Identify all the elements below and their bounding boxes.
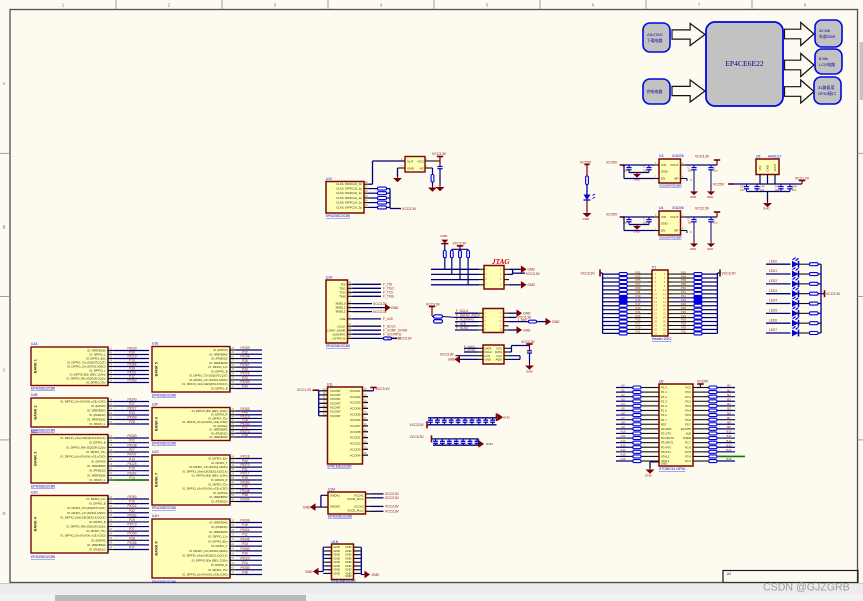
svg-text:IO, VREFB1N0: IO, VREFB1N0	[209, 361, 228, 365]
svg-text:LED2: LED2	[769, 279, 777, 283]
svg-text:P39: P39	[242, 552, 248, 556]
pll left pins	[323, 494, 329, 496]
svg-text:PIO82: PIO82	[127, 513, 136, 517]
ground under mcu	[649, 468, 651, 470]
wire nCE	[353, 318, 382, 320]
svg-text:GND: GND	[448, 358, 456, 362]
svg-text:IO, DIFFIO_L3n (DATA1,ASDO): IO, DIFFIO_L3n (DATA1,ASDO)	[189, 465, 227, 469]
svg-text:EP4CE6E22C8N: EP4CE6E22C8N	[328, 465, 353, 469]
svg-text:A16: A16	[621, 457, 626, 461]
capacitor C30 at oscillator vcc	[437, 166, 442, 168]
svg-text:PIO46: PIO46	[240, 537, 249, 541]
wire beads to AS wires	[432, 316, 434, 318]
svg-text:BANK 6: BANK 6	[155, 417, 159, 431]
ground at oscillator	[397, 177, 399, 179]
svg-text:nCE: nCE	[340, 317, 346, 321]
svg-text:GND: GND	[440, 234, 448, 238]
svg-text:IO, DIFFIO_B3n (DEV_CLRn): IO, DIFFIO_B3n (DEV_CLRn)	[192, 558, 228, 562]
svg-text:GND: GND	[303, 505, 311, 509]
svg-text:IO, DIFFIO_T5n: IO, DIFFIO_T5n	[208, 482, 228, 486]
jumper bead upper	[434, 315, 443, 318]
svg-text:XC6206P332MR: XC6206P332MR	[659, 236, 682, 240]
svg-text:EP4CE6E22C8N: EP4CE6E22C8N	[326, 214, 351, 218]
svg-text:IO, DIFFIO_L9n(nCEO)(DCLK,DCLK: IO, DIFFIO_L9n(nCEO)(DCLK,DCLK)	[182, 382, 227, 386]
svg-text:LED6: LED6	[769, 318, 777, 322]
wire MSEL2 to vcc	[353, 311, 373, 313]
left zone tick 2	[0, 296, 10, 298]
svg-text:B7: B7	[727, 416, 731, 420]
wire gnd to EPCS GND	[460, 358, 478, 360]
svg-text:C: C	[2, 368, 5, 373]
svg-text:EP4CE6E22C8N: EP4CE6E22C8N	[326, 344, 351, 348]
EPCS right vertical wire	[509, 347, 512, 349]
capacitor U5 out a	[780, 184, 782, 186]
svg-text:P24: P24	[242, 561, 248, 565]
svg-text:GND: GND	[391, 306, 399, 310]
capacitor at U3 input b	[648, 165, 650, 167]
svg-text:GPIO接口: GPIO接口	[818, 90, 836, 96]
svg-text:IO, VREFB1N0: IO, VREFB1N0	[87, 473, 106, 477]
gnd rail under U3 input caps	[629, 172, 649, 174]
fpga bank block U1B (BANK 2)	[31, 398, 108, 427]
svg-text:BP: BP	[674, 229, 678, 233]
gnd rail U5	[747, 191, 791, 193]
decoupling capacitor row C11-C17	[435, 439, 437, 441]
fpga bank block U1E (BANK 5)	[152, 347, 230, 393]
svg-text:CLK3, DIFFCLK_1n: CLK3, DIFFCLK_1n	[336, 191, 362, 195]
svg-text:PIO69: PIO69	[240, 519, 249, 523]
gpio left resistor array	[648, 273, 652, 275]
capacitor at U4 input b	[648, 217, 650, 219]
ground arrow AS pin2	[517, 309, 523, 317]
svg-text:IO, DIFFIO_T5n: IO, DIFFIO_T5n	[86, 450, 106, 454]
svg-text:nSTATUS: nSTATUS	[332, 337, 345, 341]
svg-text:IO, DIFFIO_R: IO, DIFFIO_R	[211, 478, 228, 482]
svg-text:VCC: VCC	[417, 159, 424, 163]
block power supply circuit	[643, 79, 670, 104]
status bar strip	[0, 584, 863, 601]
svg-text:VCCD_PLL1: VCCD_PLL1	[347, 497, 364, 501]
svg-text:GND: GND	[690, 195, 696, 199]
svg-text:10u: 10u	[643, 220, 648, 224]
svg-text:IO, DIFFIO_L1n: IO, DIFFIO_L1n	[86, 497, 106, 501]
svg-text:U1A: U1A	[31, 342, 38, 346]
svg-text:LED4: LED4	[769, 299, 777, 303]
svg-text:B14: B14	[727, 448, 732, 452]
gnd bar cap row1	[496, 413, 498, 421]
svg-text:BANK 2: BANK 2	[34, 405, 38, 419]
svg-text:EP4CE6E22C8N: EP4CE6E22C8N	[328, 515, 353, 519]
svg-text:F_nCE: F_nCE	[383, 317, 394, 321]
svg-text:ALE: ALE	[686, 432, 691, 436]
svg-text:EP4CE6E22C8N: EP4CE6E22C8N	[152, 442, 177, 446]
svg-text:P1.2: P1.2	[661, 395, 667, 399]
clock bank block U10	[326, 182, 364, 214]
arrow FPGA to SDRAM	[785, 23, 815, 46]
ground arrow left of U1N	[313, 568, 319, 576]
svg-text:GND: GND	[645, 474, 653, 478]
svg-text:IO, DIFFIO_L3n (DATA1,ASDO): IO, DIFFIO_L3n (DATA1,ASDO)	[67, 511, 105, 515]
svg-text:GND: GND	[707, 195, 713, 199]
ldo U4 body	[659, 211, 681, 235]
svg-text:IO, VREFB3N0: IO, VREFB3N0	[87, 543, 106, 547]
svg-text:AS/JTAG: AS/JTAG	[647, 32, 663, 37]
resistor R26 nSTATUS pullup	[384, 337, 392, 340]
power bar U5 out	[799, 180, 805, 182]
capacitor U3 bypass	[686, 178, 688, 180]
top zone tick 2	[221, 0, 223, 10]
svg-text:B4: B4	[727, 402, 731, 406]
svg-text:TMS: TMS	[339, 294, 345, 298]
svg-text:LED7: LED7	[769, 328, 777, 332]
svg-text:VCCIO4: VCCIO4	[350, 406, 361, 410]
svg-text:IO, DIFFIO_R: IO, DIFFIO_R	[211, 563, 228, 567]
power bar VCC3.3V oscillator	[437, 156, 443, 158]
svg-text:PIO54: PIO54	[240, 498, 249, 502]
svg-text:PIO60: PIO60	[240, 547, 249, 551]
svg-text:A2: A2	[621, 393, 625, 397]
svg-text:VCC3.3V: VCC3.3V	[410, 435, 425, 439]
wire LED0 to gnd	[586, 200, 588, 212]
svg-text:A6: A6	[621, 411, 625, 415]
svg-text:CSDN @GJZGRB: CSDN @GJZGRB	[763, 582, 850, 594]
power bar VCC1.2V at U1L	[313, 389, 319, 391]
svg-text:U3: U3	[659, 154, 663, 158]
config block U1K body and pins	[326, 280, 348, 343]
svg-text:GND: GND	[528, 283, 536, 287]
svg-text:IO, (PADD12): IO, (PADD12)	[211, 431, 227, 435]
block GPIO port	[814, 77, 841, 104]
ground arrow JTAG pin10	[521, 281, 527, 289]
svg-text:P0.0: P0.0	[685, 390, 691, 394]
svg-text:IO, (PADD12): IO, (PADD12)	[89, 548, 105, 552]
svg-text:B9: B9	[727, 425, 731, 429]
top zone tick 4	[433, 0, 435, 10]
ground arrow left of EPCS	[454, 356, 460, 364]
svg-text:XC6206P332MR: XC6206P332MR	[659, 184, 682, 188]
svg-text:BANK 7: BANK 7	[155, 473, 159, 487]
wire gnd to U1M	[316, 506, 321, 508]
svg-text:OUT: OUT	[407, 159, 414, 163]
svg-text:IO, (PADD12): IO, (PADD12)	[89, 413, 105, 417]
left zone tick 1	[0, 152, 10, 154]
arrow from AS/JTAG to FPGA	[672, 24, 705, 46]
wire JTAG pin2 gnd	[509, 268, 521, 270]
svg-text:IO, VREFB1N0: IO, VREFB1N0	[87, 349, 106, 353]
svg-text:B13: B13	[727, 443, 732, 447]
svg-text:GND: GND	[523, 328, 531, 332]
svg-text:P3.5/T1: P3.5/T1	[661, 450, 671, 454]
svg-text:U1E: U1E	[152, 342, 159, 346]
svg-text:B16: B16	[727, 457, 732, 461]
svg-text:IO, (PADD12): IO, (PADD12)	[211, 357, 227, 361]
svg-text:PIO83: PIO83	[127, 434, 136, 438]
svg-text:IO, DIFFIO_B: IO, DIFFIO_B	[211, 369, 228, 373]
svg-text:IO, DIFFIO_R: IO, DIFFIO_R	[211, 413, 228, 417]
svg-text:A8: A8	[621, 420, 625, 424]
green wire at mcu	[717, 455, 745, 457]
svg-text:IO, VREFB1N0: IO, VREFB1N0	[209, 435, 228, 439]
svg-text:P1.5: P1.5	[661, 409, 667, 413]
ground under U4 out a	[693, 242, 695, 243]
cap row1 bottom rail	[427, 424, 497, 426]
svg-text:A4: A4	[621, 402, 625, 406]
svg-text:VCCIO4: VCCIO4	[350, 453, 361, 457]
svg-text:MSEL2: MSEL2	[336, 310, 346, 314]
svg-text:A5: A5	[621, 407, 625, 411]
jumper bead lower	[434, 320, 443, 323]
svg-text:IO, DIFFIO_L3n (DATA1,ASDO): IO, DIFFIO_L3n (DATA1,ASDO)	[189, 549, 227, 553]
svg-text:XC6206: XC6206	[672, 154, 684, 158]
EPCS left wires	[464, 347, 478, 349]
ldo U3 pins	[654, 164, 659, 166]
block EP4CE6E22 FPGA	[706, 22, 783, 106]
top zone tick 1	[115, 0, 117, 10]
svg-text:STC89C51 DIP40: STC89C51 DIP40	[659, 467, 686, 471]
svg-text:PIO50: PIO50	[127, 532, 136, 536]
svg-text:B8: B8	[727, 420, 731, 424]
wires config DCLK group	[353, 325, 382, 327]
svg-text:VCCIO2: VCCIO2	[350, 395, 361, 399]
svg-text:A7: A7	[621, 416, 625, 420]
svg-text:IO, VREFB3N0: IO, VREFB3N0	[209, 521, 228, 525]
svg-text:A13: A13	[621, 443, 626, 447]
top zone tick 3	[327, 0, 329, 10]
regulator U5 body	[756, 159, 779, 175]
svg-text:A14: A14	[621, 448, 626, 452]
svg-text:VOUT: VOUT	[773, 163, 777, 171]
svg-text:GND: GND	[661, 170, 669, 174]
svg-text:P2.3: P2.3	[685, 459, 691, 463]
pll right wires	[366, 493, 372, 495]
gpio right resistor array	[668, 273, 672, 275]
svg-text:IO, (DATA0): IO, (DATA0)	[91, 404, 105, 408]
power bar at JTAG resistors	[457, 245, 463, 247]
svg-text:GND: GND	[552, 320, 560, 324]
svg-text:IO, DIFFIO_L3n (DATA1,ASDO): IO, DIFFIO_L3n (DATA1,ASDO)	[189, 378, 227, 382]
svg-text:IO, DIFFIO_T5n: IO, DIFFIO_T5n	[208, 416, 228, 420]
cap row2 top rail	[433, 438, 479, 440]
capacitor U5 out b	[789, 184, 791, 186]
svg-text:VCCIO1: VCCIO1	[350, 389, 361, 393]
svg-text:IO, DIFFIO_T2n (DQS0T,CQ1T): IO, DIFFIO_T2n (DQS0T,CQ1T)	[67, 506, 105, 510]
svg-text:IO, (DATA0): IO, (DATA0)	[213, 424, 227, 428]
gpio header P1 body	[652, 270, 668, 336]
svg-text:U5: U5	[756, 155, 760, 159]
svg-text:IO, DIFFIO_L6n (FLASH_nCE,nCSO: IO, DIFFIO_L6n (FLASH_nCE,nCSO)	[182, 573, 227, 577]
svg-text:10u: 10u	[713, 169, 718, 173]
right scrollbar thumb	[860, 42, 863, 100]
svg-text:P0.1: P0.1	[685, 395, 691, 399]
svg-text:VCC3.3V: VCC3.3V	[722, 272, 737, 276]
svg-text:IO, DIFFIO_T2n (DQS0T,CQ1T): IO, DIFFIO_T2n (DQS0T,CQ1T)	[67, 361, 105, 365]
svg-text:BANK 5: BANK 5	[155, 362, 159, 376]
power bar cap row1	[426, 421, 428, 428]
svg-text:C: C	[643, 216, 645, 220]
svg-text:IO, DIFFIO_B1n: IO, DIFFIO_B1n	[208, 457, 228, 461]
svg-text:IO, VREFB1N0: IO, VREFB1N0	[209, 530, 228, 534]
svg-text:GND: GND	[766, 165, 770, 171]
svg-text:VCC3.3V: VCC3.3V	[402, 207, 417, 211]
wire VCC5V to U4	[622, 216, 654, 218]
cap row1 top rail	[428, 417, 497, 419]
wire VOUT U4	[686, 216, 718, 218]
svg-text:P29: P29	[129, 518, 135, 522]
svg-text:VCC3.3V: VCC3.3V	[695, 155, 710, 159]
svg-text:P32: P32	[681, 330, 686, 334]
capacitor U5 in b	[756, 184, 758, 186]
svg-text:XTAL2: XTAL2	[661, 455, 670, 459]
svg-text:PIO83: PIO83	[127, 495, 136, 499]
svg-text:PIO17: PIO17	[127, 407, 136, 411]
svg-text:IO, VREFB1N0: IO, VREFB1N0	[87, 418, 106, 422]
svg-text:EP4CE6E22C8N: EP4CE6E22C8N	[31, 387, 56, 391]
wire U1L right pin1 to vcc	[368, 390, 374, 392]
svg-text:IO, DIFFIO_L6n (FLASH_nCE,nCSO: IO, DIFFIO_L6n (FLASH_nCE,nCSO)	[182, 487, 227, 491]
EPCS flash U2 body	[483, 345, 504, 364]
svg-text:EN: EN	[661, 229, 665, 233]
gpio left vcc bus	[602, 273, 604, 333]
left zone tick 3	[0, 439, 10, 441]
svg-text:B0: B0	[727, 384, 731, 388]
svg-text:P3.2/INT0: P3.2/INT0	[661, 436, 674, 440]
mcu gnd pin wire	[655, 461, 659, 463]
svg-text:LED1: LED1	[769, 269, 777, 273]
svg-text:IO, DIFFIO_B3n (DEV_CLRn): IO, DIFFIO_B3n (DEV_CLRn)	[192, 409, 228, 413]
cap row2 bottom rail	[433, 444, 479, 446]
svg-text:LED5: LED5	[769, 309, 777, 313]
AS header left wires	[455, 312, 478, 314]
svg-text:GND: GND	[583, 217, 591, 221]
svg-text:IO, DIFFIO_B1n: IO, DIFFIO_B1n	[208, 539, 228, 543]
wire AS pin2 gnd	[509, 312, 517, 314]
ground arrow after R34	[546, 318, 552, 326]
svg-text:P13: P13	[129, 411, 135, 415]
svg-text:VCCIO6: VCCIO6	[350, 418, 361, 422]
svg-text:IO, VREFB3N0: IO, VREFB3N0	[209, 495, 228, 499]
bottom scrollbar track	[0, 595, 863, 601]
svg-text:VCC3.3V: VCC3.3V	[385, 505, 400, 509]
ldo U4 pins	[654, 216, 659, 218]
svg-text:A4: A4	[727, 572, 731, 576]
svg-text:PIO97: PIO97	[127, 471, 136, 475]
ground under power LED	[586, 212, 588, 214]
power bar gpio left	[599, 270, 601, 277]
wire nSTATUS pullup	[381, 337, 384, 339]
svg-text:PIO25: PIO25	[127, 462, 136, 466]
block AS/JTAG download circuit	[643, 23, 670, 52]
svg-text:PIO73: PIO73	[127, 523, 136, 527]
svg-text:B6: B6	[727, 411, 731, 415]
svg-text:U6: U6	[659, 380, 663, 384]
ground under U5	[767, 202, 769, 204]
svg-text:F_nCSO: F_nCSO	[456, 326, 469, 330]
svg-text:VCC: VCC	[685, 386, 691, 390]
svg-text:BP: BP	[674, 177, 678, 181]
svg-text:VCCIO3: VCCIO3	[350, 401, 361, 405]
power bar gpio right	[719, 270, 721, 277]
svg-text:PIO40: PIO40	[127, 398, 136, 402]
svg-text:IO, DIFFIO_L6n (FLASH_nCE,nCSO: IO, DIFFIO_L6n (FLASH_nCE,nCSO)	[60, 455, 105, 459]
wire AS pin4 vcc	[509, 316, 517, 318]
wire EN loop U4	[623, 217, 625, 231]
svg-text:P0.3: P0.3	[685, 404, 691, 408]
svg-text:ASDI: ASDI	[495, 358, 502, 362]
svg-text:VCC5V: VCC5V	[713, 182, 725, 186]
svg-text:IO, DIFFIO_L9n(nCEO)(DCLK,DCLK: IO, DIFFIO_L9n(nCEO)(DCLK,DCLK)	[182, 469, 227, 473]
ground arrow left of U1M	[310, 503, 316, 511]
svg-text:IO, (DATA0): IO, (DATA0)	[213, 348, 227, 352]
svg-text:EP4CE6E22C8N: EP4CE6E22C8N	[31, 485, 56, 489]
svg-text:EN: EN	[661, 177, 665, 181]
svg-text:PIO90: PIO90	[127, 416, 136, 420]
svg-text:P1.7: P1.7	[661, 418, 667, 422]
wire U10 CLK1 to oscillator	[369, 183, 373, 185]
svg-text:P15: P15	[242, 523, 248, 527]
svg-text:IO, DIFFIO_L1n: IO, DIFFIO_L1n	[208, 365, 228, 369]
svg-text:PIO47: PIO47	[127, 453, 136, 457]
svg-text:VCC3.3V: VCC3.3V	[526, 272, 541, 276]
gnd block left bus	[322, 547, 324, 571]
svg-text:IO, DIFFIO_R9n (DQS1R,CQ1n): IO, DIFFIO_R9n (DQS1R,CQ1n)	[66, 525, 105, 529]
svg-text:P3.0/RX: P3.0/RX	[661, 427, 672, 431]
svg-text:VCC3.3V: VCC3.3V	[376, 387, 391, 391]
ground arrow at MSEL1	[385, 304, 391, 312]
gnd block U1N body	[332, 544, 354, 580]
power bar cap row2	[431, 435, 433, 442]
svg-text:B5: B5	[727, 407, 731, 411]
svg-text:IO, DIFFIO_T2n (DQS0T,CQ1T): IO, DIFFIO_T2n (DQS0T,CQ1T)	[189, 374, 227, 378]
capacitor C31 at EPCS	[527, 350, 532, 352]
wire oscillator NC pin	[425, 167, 433, 169]
block 32Mb SDRAM	[815, 20, 842, 47]
svg-text:GND: GND	[305, 570, 313, 574]
svg-text:BANK 4: BANK 4	[34, 516, 38, 531]
svg-text:B2: B2	[727, 393, 731, 397]
svg-text:BANK 1: BANK 1	[34, 359, 38, 373]
svg-text:10u: 10u	[643, 168, 648, 172]
svg-text:IO, VREFB3N0: IO, VREFB3N0	[209, 428, 228, 432]
ground under U4 input	[636, 225, 638, 226]
svg-text:IO, (DATA0): IO, (DATA0)	[91, 538, 105, 542]
power bar VCC3.3V at U1L	[370, 387, 376, 389]
wire oscillator GND pin	[398, 167, 406, 169]
svg-text:VOUT: VOUT	[670, 215, 679, 219]
wire AS pin10 gnd	[509, 329, 517, 331]
svg-text:VCC3.3V: VCC3.3V	[453, 241, 468, 245]
svg-text:IO, DIFFIO_B: IO, DIFFIO_B	[89, 502, 106, 506]
svg-text:XC6206: XC6206	[672, 206, 684, 210]
svg-text:VCC5V: VCC5V	[697, 380, 709, 384]
svg-text:GND: GND	[345, 574, 351, 578]
svg-text:P1.0: P1.0	[661, 386, 667, 390]
svg-text:LED3: LED3	[769, 289, 777, 293]
svg-text:VCCIO7: VCCIO7	[350, 424, 361, 428]
svg-text:A12: A12	[621, 439, 626, 443]
svg-text:IO, DIFFIO_B: IO, DIFFIO_B	[211, 387, 228, 391]
svg-text:GND: GND	[528, 268, 536, 272]
svg-text:VCC5V: VCC5V	[606, 161, 618, 165]
svg-text:IO, DIFFIO_T: IO, DIFFIO_T	[211, 544, 228, 548]
capacitor U4 bypass	[686, 230, 688, 232]
svg-text:P2.5: P2.5	[685, 450, 691, 454]
svg-text:供电电路: 供电电路	[647, 89, 663, 94]
svg-text:P27: P27	[129, 448, 135, 452]
svg-text:P1.4: P1.4	[661, 404, 667, 408]
svg-text:EP4CE6E22C8N: EP4CE6E22C8N	[152, 506, 177, 510]
svg-text:IO, DIFFIO_L: IO, DIFFIO_L	[89, 353, 106, 357]
svg-text:外部SDR: 外部SDR	[819, 33, 836, 39]
